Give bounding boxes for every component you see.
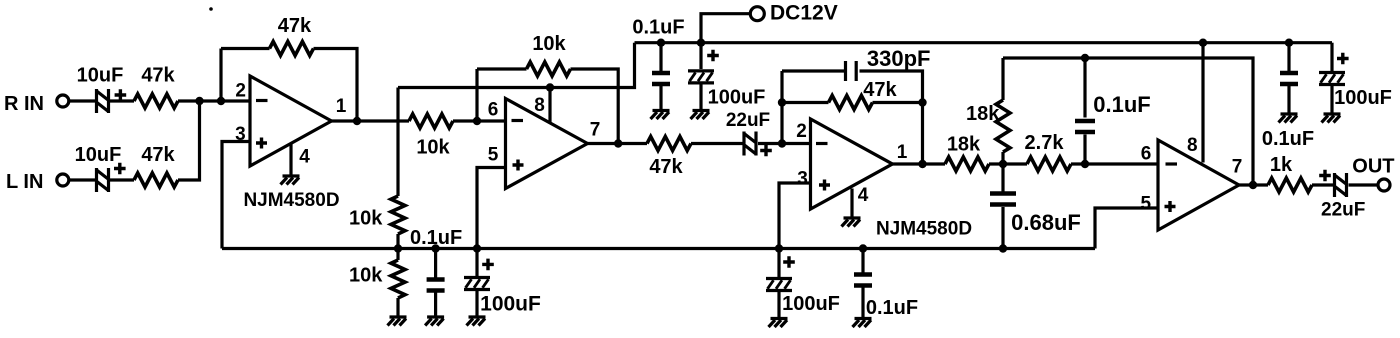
terminal L IN — [6, 171, 69, 193]
svg-text:18k: 18k — [947, 134, 981, 156]
resistor R5 10k feedback — [527, 33, 571, 76]
ground C6 — [691, 111, 710, 120]
svg-text:0.1uF: 0.1uF — [632, 17, 684, 39]
capacitor C11 0.68uF — [990, 194, 1081, 236]
svg-text:4: 4 — [299, 146, 310, 167]
wire Vcc branch — [398, 43, 635, 88]
wire — [68, 178, 96, 181]
wire — [1001, 58, 1004, 100]
op-amp U1B NJM4580D — [488, 95, 601, 188]
wire — [1083, 58, 1086, 118]
svg-text:L IN: L IN — [6, 171, 43, 193]
svg-text:1: 1 — [336, 96, 347, 117]
junction U2A output — [918, 160, 926, 168]
capacitor C14 0.1uF — [1262, 73, 1314, 150]
wire — [396, 234, 399, 249]
junction — [473, 244, 481, 252]
wire — [701, 14, 751, 43]
wire — [1287, 43, 1290, 71]
svg-text:1: 1 — [897, 142, 908, 163]
capacitor C1 10uF — [77, 65, 127, 113]
svg-text:10k: 10k — [349, 265, 383, 287]
svg-text:100uF: 100uF — [708, 87, 766, 109]
capacitor C5 0.1uF supply — [632, 17, 684, 84]
svg-text:22uF: 22uF — [1321, 199, 1365, 220]
wire — [782, 69, 846, 72]
capacitor C8 330pF feedback — [846, 46, 931, 81]
terminal OUT — [1352, 156, 1394, 191]
wire — [699, 43, 702, 69]
junction node B — [1081, 160, 1089, 168]
resistor R8 47k — [647, 137, 691, 179]
svg-text:2: 2 — [796, 121, 807, 142]
svg-text:18k: 18k — [966, 103, 1000, 125]
wire — [780, 71, 783, 144]
svg-text:100uF: 100uF — [480, 293, 541, 316]
junction — [859, 244, 867, 252]
junction — [431, 244, 439, 252]
wire — [314, 49, 358, 122]
junction — [778, 98, 786, 106]
resistor R10 18k — [945, 134, 989, 171]
junction U2B output — [1249, 181, 1257, 189]
junction — [697, 39, 705, 47]
wire — [777, 291, 780, 317]
junction input node — [195, 97, 203, 105]
svg-text:47k: 47k — [141, 144, 175, 166]
svg-text:22uF: 22uF — [726, 110, 770, 131]
wire pin 8 — [1201, 43, 1204, 163]
wire — [777, 249, 780, 278]
junction pin 8 rail — [1199, 39, 1207, 47]
wire pin 3 — [779, 183, 811, 249]
wire — [1312, 183, 1334, 186]
capacitor C15 100uF — [1319, 53, 1392, 109]
resistor R1 47k — [134, 65, 178, 108]
ground U1A pin 4 — [281, 176, 300, 185]
svg-text:47k: 47k — [649, 156, 683, 178]
svg-text:47k: 47k — [863, 79, 897, 101]
wire — [571, 69, 619, 144]
wire — [861, 249, 864, 273]
op-amp U1A NJM4580D — [235, 76, 347, 211]
wire — [588, 142, 648, 145]
wire feedback — [1003, 58, 1253, 185]
capacitor C2 10uF — [75, 144, 126, 192]
resistor R13 1k — [1268, 154, 1312, 192]
svg-text:0.1uF: 0.1uF — [1093, 92, 1150, 117]
ground C9 — [769, 319, 788, 328]
op-amp U2A NJM4580D — [796, 119, 972, 239]
wire — [1001, 164, 1004, 192]
wire — [691, 142, 744, 145]
svg-text:R IN: R IN — [4, 93, 44, 115]
junction U2A pin 2 — [778, 139, 786, 147]
wire — [1330, 85, 1333, 113]
op-amp U2B NJM4580D — [1141, 135, 1243, 230]
resistor R4 10k — [409, 114, 453, 159]
ground C3 — [425, 317, 444, 326]
svg-text:6: 6 — [1141, 143, 1152, 164]
wire — [434, 293, 437, 316]
wire — [396, 249, 399, 261]
svg-text:100uF: 100uF — [1334, 87, 1392, 109]
capacitor C9 100uF Vref2 — [766, 256, 840, 315]
svg-text:5: 5 — [488, 145, 499, 166]
wire — [659, 43, 662, 71]
svg-text:5: 5 — [1141, 194, 1152, 215]
junction feedback tap U1A pin 2 — [217, 97, 225, 105]
ground C10 — [853, 319, 872, 328]
svg-text:100uF: 100uF — [782, 293, 840, 315]
svg-text:10k: 10k — [416, 137, 450, 159]
junction — [918, 98, 926, 106]
wire — [1083, 135, 1086, 165]
wire Vref rail — [222, 247, 1095, 250]
capacitor C3 0.1uF Vref — [410, 227, 462, 291]
wire — [860, 71, 923, 164]
svg-text:8: 8 — [1187, 135, 1198, 156]
wire — [1330, 43, 1333, 71]
wire — [477, 67, 527, 70]
resistor R9 47k feedback — [829, 79, 898, 110]
svg-text:DC12V: DC12V — [770, 2, 838, 25]
junction — [1081, 54, 1089, 62]
wire — [782, 101, 829, 104]
wire — [1071, 162, 1158, 165]
junction — [999, 244, 1007, 252]
terminal R IN — [4, 93, 69, 115]
wire — [475, 291, 478, 316]
wire pin 5 — [1095, 208, 1158, 249]
wire pin 4 — [850, 189, 853, 218]
svg-text:7: 7 — [1232, 156, 1243, 177]
wire — [396, 298, 399, 316]
ground C4 — [467, 317, 486, 326]
wire — [219, 49, 222, 102]
wire — [68, 99, 96, 102]
resistor R6 10k divider upper — [349, 196, 405, 234]
wire — [178, 101, 200, 180]
wire — [221, 47, 270, 50]
wire — [989, 162, 1027, 165]
svg-text:47k: 47k — [141, 65, 175, 87]
junction — [1285, 39, 1293, 47]
svg-text:10uF: 10uF — [75, 144, 122, 166]
wire — [453, 119, 506, 122]
svg-text:7: 7 — [590, 120, 601, 141]
wire — [861, 288, 864, 318]
wire — [1239, 183, 1268, 186]
junction Vref pin 3 — [775, 244, 783, 252]
terminal DC12V — [750, 2, 837, 25]
wire — [758, 142, 811, 145]
wire — [873, 101, 923, 104]
svg-text:2.7k: 2.7k — [1025, 132, 1065, 154]
junction Vref rail — [394, 244, 402, 252]
ground C5 — [651, 111, 670, 120]
wire pin 5 — [477, 168, 506, 249]
capacitor C4 100uF Vref — [464, 259, 541, 316]
resistor R3 47k feedback — [270, 15, 314, 56]
svg-text:10k: 10k — [349, 208, 383, 230]
stray mark — [209, 7, 213, 11]
wire supply rail — [635, 41, 1333, 44]
svg-text:10k: 10k — [532, 33, 566, 55]
ground C14 — [1279, 114, 1298, 123]
capacitor C13 22uF output — [1319, 170, 1365, 221]
svg-text:8: 8 — [534, 95, 545, 116]
svg-text:OUT: OUT — [1352, 156, 1394, 178]
wire — [893, 162, 946, 165]
wire — [1349, 183, 1380, 186]
capacitor C12 0.1uF feedback — [1075, 92, 1151, 132]
wire — [110, 99, 134, 102]
junction pin 8 supply — [546, 83, 554, 91]
resistor R7 10k divider lower — [349, 260, 405, 298]
svg-text:1k: 1k — [1270, 154, 1293, 176]
svg-text:47k: 47k — [278, 15, 312, 37]
svg-text:2: 2 — [235, 81, 246, 102]
ground U2A pin 4 — [842, 218, 861, 227]
svg-text:3: 3 — [797, 169, 808, 190]
wire — [475, 69, 478, 121]
resistor R2 47k — [134, 144, 178, 187]
junction node A — [999, 160, 1007, 168]
svg-text:330pF: 330pF — [867, 46, 931, 71]
capacitor C7 22uF — [726, 110, 772, 156]
capacitor C10 0.1uF Vref2 — [854, 275, 918, 320]
wire pin 3 — [222, 142, 250, 249]
wire — [178, 99, 250, 102]
junction U1A output — [353, 117, 361, 125]
resistor R12 2.7k — [1025, 132, 1071, 171]
svg-text:0.68uF: 0.68uF — [1011, 210, 1081, 235]
wire — [699, 83, 702, 110]
wire — [396, 88, 399, 197]
svg-text:NJM4580D: NJM4580D — [876, 218, 972, 239]
svg-text:10uF: 10uF — [77, 65, 124, 87]
capacitor C6 100uF supply — [688, 50, 765, 109]
wire — [659, 84, 662, 110]
junction U1B pin 6 feedback tap — [473, 117, 481, 125]
svg-text:4: 4 — [858, 185, 869, 206]
resistor R11 18k vertical — [966, 100, 1010, 152]
wire — [332, 119, 410, 122]
svg-text:NJM4580D: NJM4580D — [243, 190, 339, 211]
wire — [434, 249, 437, 278]
wire — [110, 178, 134, 181]
svg-text:6: 6 — [488, 100, 499, 121]
wire — [475, 249, 478, 277]
junction U1B output — [614, 139, 622, 147]
wire — [1001, 152, 1004, 164]
wire — [1001, 207, 1004, 249]
ground divider — [388, 317, 407, 326]
svg-text:0.1uF: 0.1uF — [1262, 128, 1314, 150]
wire — [1287, 86, 1290, 113]
svg-text:0.1uF: 0.1uF — [866, 297, 918, 319]
ground C15 — [1322, 114, 1341, 123]
wire pin 4 — [289, 143, 292, 175]
wire pin 8 — [548, 88, 551, 124]
junction — [657, 39, 665, 47]
